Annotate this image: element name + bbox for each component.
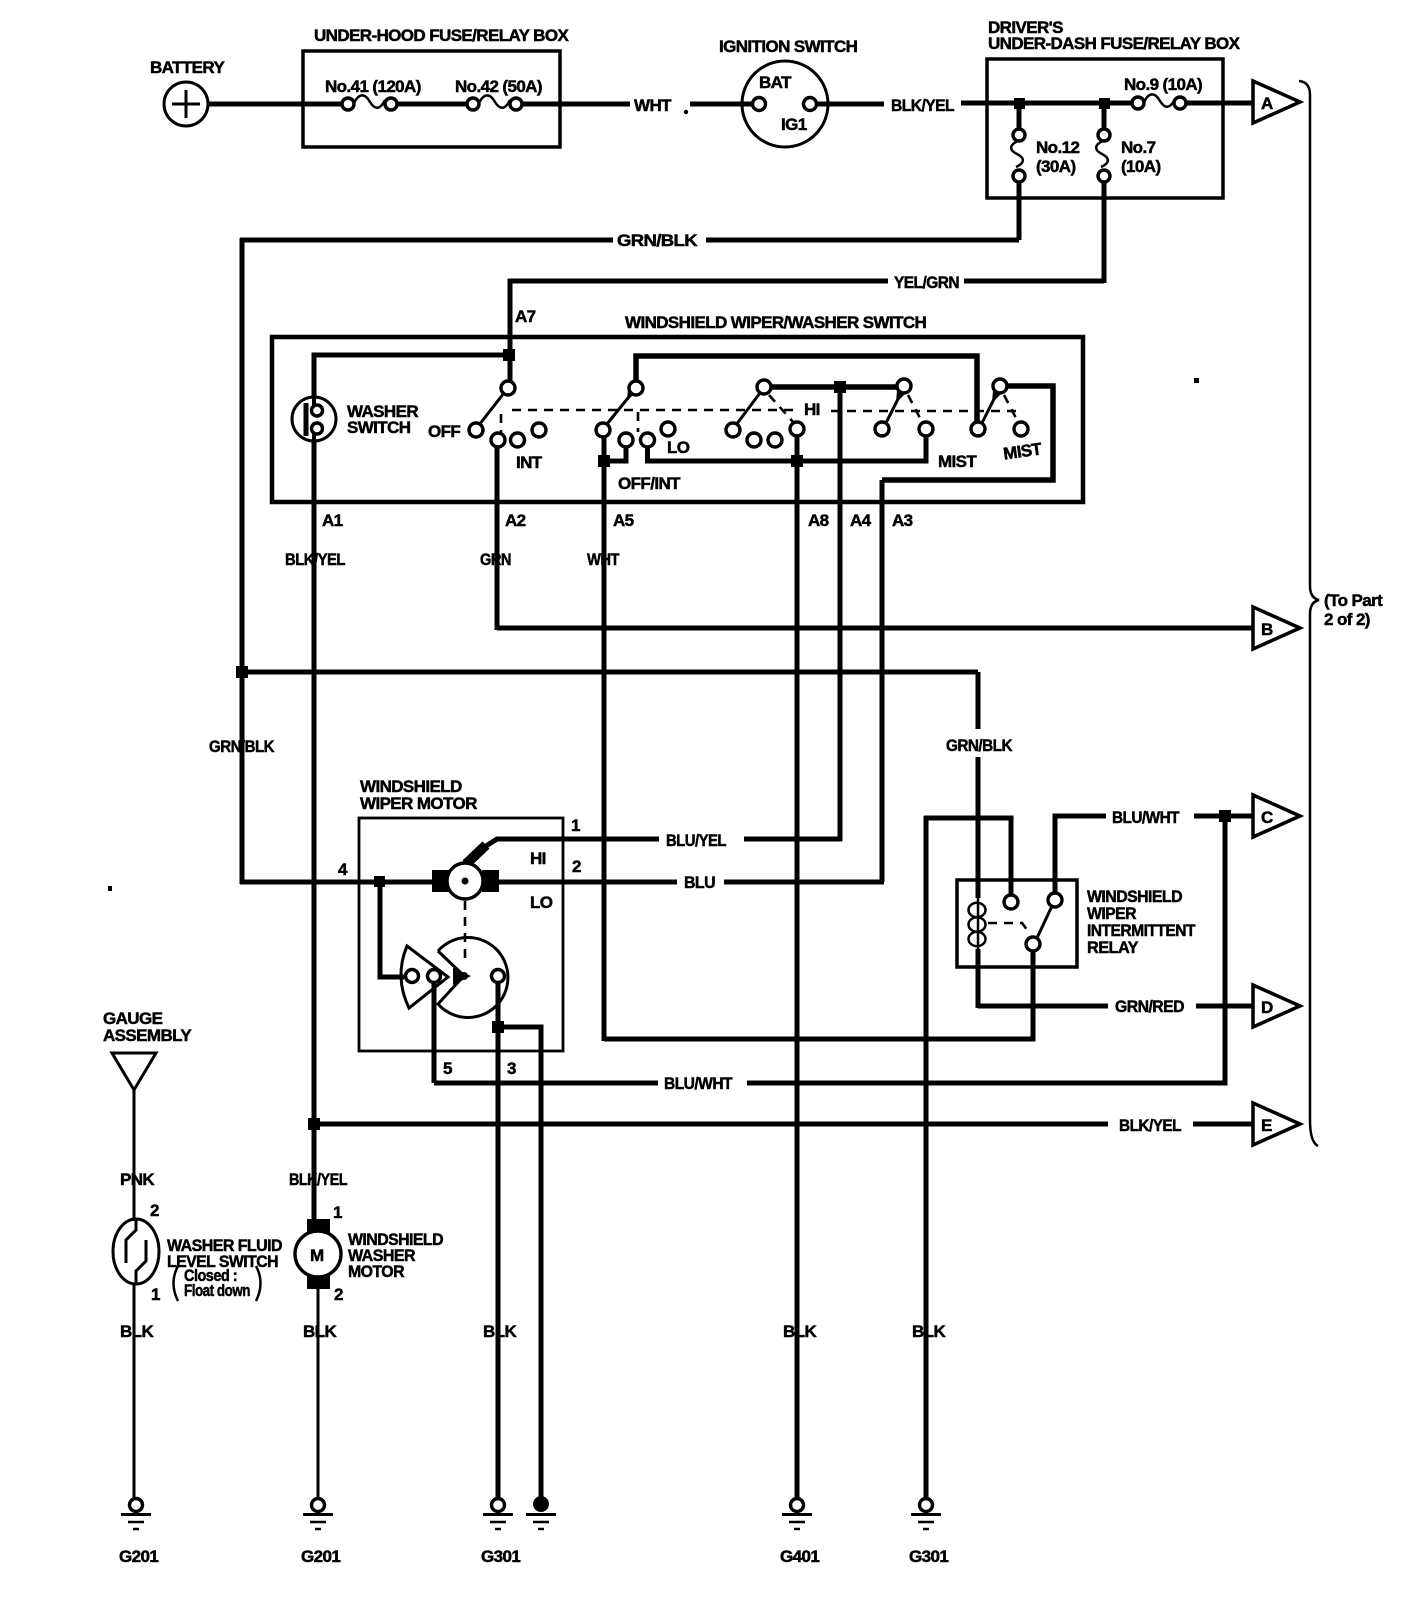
svg-text:A2: A2 [505, 511, 526, 530]
wire jog to INT contact [604, 447, 626, 461]
wire A2 vertical [495, 447, 500, 630]
svg-text:MOTOR: MOTOR [348, 1262, 404, 1281]
wire A3 vertical [880, 480, 885, 882]
fuse No.9 (10A) [1124, 75, 1202, 109]
svg-text:BLU/YEL: BLU/YEL [666, 831, 726, 850]
washer switch SW1 [292, 397, 418, 443]
svg-text:BLK: BLK [783, 1322, 817, 1341]
svg-text:C: C [1261, 808, 1273, 827]
fuse No.41 (120A) [304, 77, 421, 110]
node bus A8 junction [791, 455, 803, 467]
svg-text:BLU: BLU [684, 873, 715, 892]
ground G301 right [909, 1499, 948, 1567]
under-hood fuse/relay box [303, 26, 569, 147]
wire to arrow A [1186, 101, 1253, 106]
switch pole 2 OFF/INT [596, 356, 977, 493]
svg-text:BLK/YEL: BLK/YEL [289, 1170, 347, 1189]
wiper motor M1 [432, 845, 553, 912]
fuse No.42 (50A) [455, 77, 542, 110]
svg-text:RELAY: RELAY [1087, 938, 1139, 957]
svg-text:E: E [1261, 1116, 1272, 1135]
wire BLU motor LO to A3 [499, 873, 884, 892]
arrow E [1253, 1103, 1300, 1145]
svg-text:LO: LO [530, 893, 553, 912]
node terminal3 branch [492, 1021, 504, 1033]
svg-text:3: 3 [507, 1059, 516, 1078]
switch pole 3 HI [726, 380, 898, 447]
wire 4 into motor [240, 880, 433, 885]
svg-text:2: 2 [334, 1285, 343, 1304]
svg-text:PNK: PNK [120, 1170, 155, 1189]
arrow B [1253, 607, 1300, 649]
svg-text:A7: A7 [515, 307, 536, 326]
svg-text:4: 4 [338, 860, 348, 879]
svg-text:2 of 2): 2 of 2) [1324, 610, 1370, 629]
wire BLK/YEL to arrow E [314, 1116, 1253, 1135]
dashed mechanical link [501, 410, 1016, 438]
fuse No.12 (30A) [1011, 104, 1079, 182]
svg-text:(To Part: (To Part [1324, 591, 1383, 610]
wire washer switch to A7 node [314, 355, 510, 399]
relay common and arm [604, 906, 1052, 1039]
svg-text:G201: G201 [301, 1547, 340, 1566]
svg-text:A8: A8 [808, 511, 829, 530]
svg-text:GRN: GRN [480, 550, 511, 569]
svg-text:SWITCH: SWITCH [347, 418, 411, 437]
ground G401 [780, 1499, 819, 1567]
wire LO contact to bus [648, 446, 798, 461]
bracket (To Part 2 of 2) [1299, 81, 1383, 1146]
svg-text:(10A): (10A) [1121, 157, 1161, 176]
svg-text:1: 1 [571, 816, 580, 835]
arrow A [1253, 81, 1300, 123]
svg-text:IGNITION SWITCH: IGNITION SWITCH [719, 37, 858, 56]
svg-text:BLK/YEL: BLK/YEL [1119, 1116, 1181, 1135]
wire BLU/WHT bottom [434, 816, 1225, 1093]
svg-text:GRN/BLK: GRN/BLK [946, 736, 1013, 755]
windshield washer motor M2 [295, 1219, 443, 1289]
svg-text:BLK: BLK [483, 1322, 517, 1341]
wire terminal 5 down [432, 984, 437, 1083]
svg-text:WIPER MOTOR: WIPER MOTOR [360, 794, 477, 813]
svg-text:G401: G401 [780, 1547, 819, 1566]
node pole2 junction [598, 455, 610, 467]
arrow D [1253, 985, 1300, 1027]
node A7 junction [503, 349, 515, 361]
windshield wiper intermittent relay box [957, 880, 1196, 967]
svg-text:G301: G301 [481, 1547, 520, 1566]
svg-text:No.9 (10A): No.9 (10A) [1124, 75, 1202, 94]
svg-text:2: 2 [150, 1201, 159, 1220]
wire HI contact to bus node [795, 436, 800, 461]
driver's under-dash fuse/relay box [987, 18, 1241, 198]
svg-text:No.7: No.7 [1121, 138, 1156, 157]
wire pole2 left contact down [602, 436, 607, 461]
svg-text:BATTERY: BATTERY [150, 58, 225, 77]
svg-text:B: B [1261, 620, 1273, 639]
relay coil [969, 894, 986, 1008]
svg-text:LO: LO [667, 438, 690, 457]
svg-text:A3: A3 [892, 511, 913, 530]
svg-text:BLK/YEL: BLK/YEL [891, 96, 954, 115]
svg-text:OFF: OFF [428, 422, 460, 441]
svg-text:1: 1 [151, 1285, 160, 1304]
node No.12 tap [1014, 98, 1025, 109]
windshield wiper/washer switch box [272, 313, 1083, 502]
relay contact A [924, 818, 1018, 909]
svg-text:BLK: BLK [303, 1322, 337, 1341]
node BLU/WHT junction [1219, 810, 1231, 822]
svg-text:IG1: IG1 [781, 115, 807, 134]
wire GRN/BLK horizontal [240, 231, 1019, 250]
wire GRN to arrow B [497, 626, 1253, 631]
wire PNK [120, 1090, 155, 1221]
svg-text:5: 5 [443, 1059, 452, 1078]
svg-text:2: 2 [572, 857, 581, 876]
wire bus to pole4 contact [797, 435, 926, 461]
svg-text:GRN/BLK: GRN/BLK [617, 231, 698, 250]
svg-text:M: M [310, 1246, 324, 1265]
wire A4 vertical [838, 387, 843, 841]
arrow C [1253, 795, 1300, 837]
windshield wiper motor box [359, 777, 563, 1051]
node A4 tap [834, 381, 846, 393]
svg-text:HI: HI [530, 849, 546, 868]
svg-text:HI: HI [804, 400, 820, 419]
svg-text:A: A [1261, 94, 1273, 113]
wire BLK/YEL ignition to under-dash box [817, 96, 987, 115]
svg-text:A1: A1 [322, 511, 343, 530]
wire fuse No.7 down to YEL/GRN [1102, 182, 1107, 283]
switch pole 4 MIST [875, 379, 977, 471]
wire GRN/BLK right vertical [946, 672, 1013, 898]
ignition switch [719, 37, 858, 147]
wire A8 vertical [795, 461, 800, 1499]
svg-text:GRN/BLK: GRN/BLK [209, 737, 275, 756]
wire between fuses [397, 102, 467, 107]
speck right [1194, 378, 1199, 383]
svg-text:A5: A5 [613, 511, 634, 530]
svg-text:WHT: WHT [634, 96, 672, 115]
svg-text:A4: A4 [850, 511, 872, 530]
wire A1 vertical [312, 441, 317, 1221]
wire A7 vertical [508, 279, 513, 382]
wire left GRN/BLK vertical [240, 238, 245, 884]
svg-text:No.41 (120A): No.41 (120A) [325, 77, 421, 96]
svg-text:BLU/WHT: BLU/WHT [1112, 808, 1180, 827]
svg-text:BAT: BAT [759, 73, 792, 92]
node No.7 tap [1099, 98, 1110, 109]
svg-text:OFF/INT: OFF/INT [618, 474, 681, 493]
fuse No.7 (10A) [1096, 104, 1160, 182]
svg-text:D: D [1261, 998, 1273, 1017]
svg-text:WHT: WHT [587, 550, 620, 569]
wire terminal 3 down [496, 984, 501, 1499]
wire park tap down to contact [380, 882, 404, 977]
relay contact B [1048, 816, 1106, 907]
svg-text:ASSEMBLY: ASSEMBLY [103, 1026, 192, 1045]
wire WHT fuse box to ignition switch [522, 96, 752, 115]
wire GRN/BLK mid horizontal [240, 670, 978, 675]
svg-text:1: 1 [333, 1203, 342, 1222]
svg-text:UNDER-DASH FUSE/RELAY BOX: UNDER-DASH FUSE/RELAY BOX [988, 34, 1241, 53]
node park tap [374, 876, 385, 887]
node BLK/YEL start junction [308, 1118, 320, 1130]
wire battery to under-hood box [207, 102, 304, 107]
wire GRN/RED to arrow D [978, 997, 1253, 1016]
washer fluid level switch [113, 1219, 282, 1301]
wire relay contact A ground vertical [924, 816, 929, 1499]
svg-text:No.42 (50A): No.42 (50A) [455, 77, 542, 96]
switch pole 5 MIST [971, 379, 1044, 464]
svg-text:YEL/GRN: YEL/GRN [894, 273, 959, 292]
park switch cam [401, 946, 448, 1008]
svg-text:G201: G201 [119, 1547, 158, 1566]
wire inside under-dash box [987, 101, 1132, 106]
wire BLK fluid switch to ground [120, 1283, 154, 1499]
wire A5 vertical [602, 461, 607, 1041]
wire BLK washer motor to ground [303, 1289, 337, 1499]
svg-text:GRN/RED: GRN/RED [1115, 997, 1184, 1016]
ground branch filled [526, 1496, 556, 1529]
svg-text:Float down: Float down [184, 1281, 250, 1300]
battery B1 [150, 58, 225, 126]
switch pole 1 OFF/INT arm [428, 381, 546, 472]
svg-text:UNDER-HOOD FUSE/RELAY BOX: UNDER-HOOD FUSE/RELAY BOX [314, 26, 569, 45]
svg-text:INT: INT [516, 453, 543, 472]
svg-text:BLK: BLK [120, 1322, 154, 1341]
svg-text:BLK/YEL: BLK/YEL [285, 550, 345, 569]
park switch plate [406, 901, 508, 1018]
svg-text:BLK: BLK [912, 1322, 946, 1341]
svg-text:WINDSHIELD WIPER/WASHER SWITCH: WINDSHIELD WIPER/WASHER SWITCH [625, 313, 927, 332]
node GRN/BLK mid junction [236, 666, 248, 678]
ground G301 left [481, 1499, 520, 1567]
svg-text:G301: G301 [909, 1547, 948, 1566]
wire fuse No.12 down to GRN/BLK [1017, 182, 1022, 240]
gauge assembly [103, 1009, 192, 1090]
wire BLU/WHT to arrow C [1112, 808, 1253, 827]
wire pole5 pivot loop to A3 [882, 386, 1053, 480]
svg-text:MIST: MIST [938, 452, 977, 471]
ground G201 right [301, 1499, 340, 1567]
svg-text:BLU/WHT: BLU/WHT [664, 1074, 733, 1093]
ground G201 left [119, 1499, 158, 1567]
wire YEL/GRN horizontal [508, 273, 1104, 292]
wire branch to second ground [498, 1027, 541, 1499]
svg-text:No.12: No.12 [1036, 138, 1079, 157]
wire BLU/YEL motor HI to A4 [486, 831, 842, 850]
svg-text:(30A): (30A) [1036, 157, 1076, 176]
speck left [108, 886, 112, 891]
